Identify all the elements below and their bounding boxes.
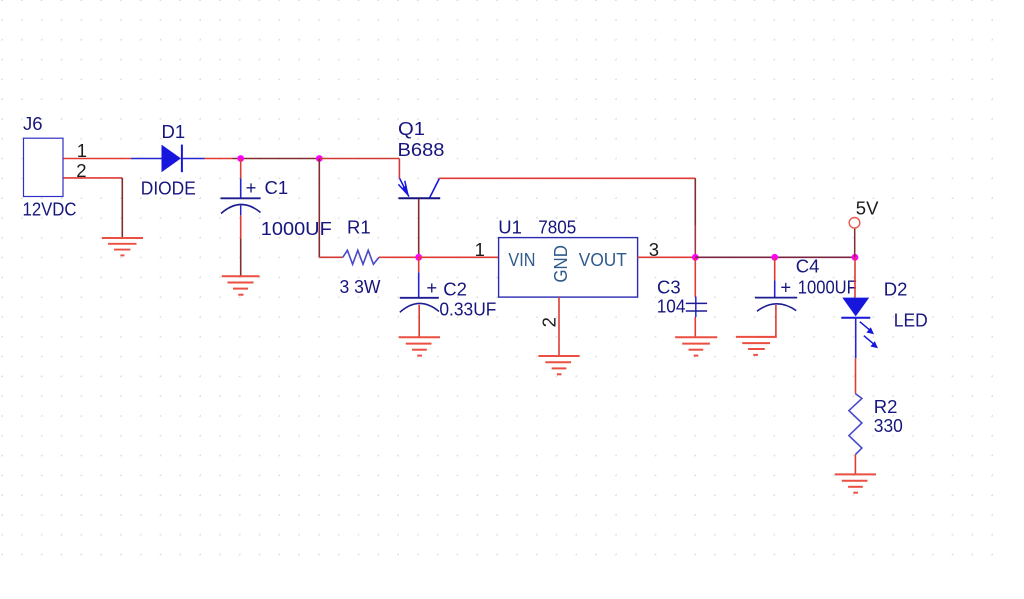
wire node C to U1 VIN	[419, 256, 499, 258]
connector J6	[24, 138, 64, 196]
wire C3 lower	[694, 317, 696, 337]
transistor Q1 base bar	[399, 197, 441, 199]
ground C4	[736, 337, 777, 355]
capacitor C1 bottom lead	[240, 206, 242, 216]
svg-text:0.33UF: 0.33UF	[439, 299, 496, 320]
capacitor C3 lead	[695, 297, 697, 318]
svg-text:Q1: Q1	[398, 118, 425, 139]
svg-text:VIN: VIN	[508, 249, 535, 270]
capacitor C2 top lead	[418, 272, 420, 297]
svg-text:1000UF: 1000UF	[261, 218, 332, 239]
wire U1 pin3	[638, 256, 696, 258]
svg-text:104: 104	[657, 296, 686, 317]
wire J6 pin2 horizontal	[64, 177, 123, 179]
diode D1 body	[162, 145, 181, 173]
wire R1 to node C	[379, 256, 419, 258]
wire D2 to R2	[855, 358, 857, 394]
svg-text:R2: R2	[874, 396, 898, 417]
ground C1	[222, 276, 260, 294]
wire node B down to R1	[318, 159, 320, 258]
svg-text:C2: C2	[443, 279, 467, 300]
capacitor C1 plate	[221, 197, 261, 199]
svg-text:1: 1	[77, 140, 87, 161]
wire C4 upper	[774, 257, 776, 280]
diode D1 cathode lead	[182, 158, 205, 160]
capacitor C3 plates	[686, 303, 707, 311]
diode D1 cathode bar	[181, 145, 183, 173]
wire C1 upper	[240, 159, 242, 179]
wire node A to node B	[233, 158, 320, 160]
ground J6	[102, 238, 143, 255]
svg-text:2: 2	[76, 160, 86, 181]
wire collector drop	[694, 178, 696, 225]
junction node A	[237, 155, 244, 162]
svg-text:1000UF: 1000UF	[798, 277, 857, 298]
svg-text:LED: LED	[894, 310, 928, 331]
svg-text:+: +	[780, 277, 791, 298]
capacitor C4 top lead	[774, 280, 776, 297]
ground C2	[399, 337, 440, 355]
diode D2 body	[842, 298, 869, 317]
wire C1 lower red	[240, 215, 242, 239]
junction node D	[692, 254, 699, 261]
wire C3 upper	[694, 257, 696, 297]
svg-text:VOUT: VOUT	[579, 249, 627, 270]
wire D1 to node A	[205, 158, 233, 160]
svg-text:U1: U1	[498, 217, 522, 238]
capacitor C1 arc	[221, 204, 261, 213]
diode D2 bottom lead	[855, 318, 857, 359]
junction node F	[852, 254, 859, 261]
diode D2 emission arrow 2	[864, 336, 878, 349]
regulator U1 body	[499, 238, 638, 298]
wire C1 lower maroon	[240, 239, 242, 276]
svg-text:330: 330	[874, 415, 903, 436]
wire Q1 emitter drop	[398, 159, 400, 179]
wire Q1 collector top	[439, 177, 696, 179]
svg-text:3: 3	[649, 239, 659, 260]
wire 5V lower	[854, 246, 856, 257]
diode D1 anode lead	[131, 158, 162, 160]
wire output net	[695, 256, 855, 258]
svg-text:C3: C3	[657, 277, 681, 298]
wire 5V upper	[854, 229, 856, 246]
power terminal 5V	[849, 218, 860, 229]
svg-text:+: +	[426, 277, 437, 298]
junction node C	[415, 254, 422, 261]
ground U1	[538, 356, 579, 374]
svg-text:DIODE: DIODE	[141, 178, 196, 199]
diode D2 cathode bar	[841, 317, 870, 319]
transistor Q1 emitter line	[400, 178, 409, 196]
svg-text:B688: B688	[398, 139, 445, 160]
svg-text:1: 1	[475, 239, 485, 260]
svg-text:7805: 7805	[538, 217, 576, 238]
svg-text:D2: D2	[884, 278, 908, 299]
capacitor C4 plate	[755, 297, 797, 299]
ground R2	[835, 474, 876, 492]
transistor Q1 collector line	[430, 178, 440, 197]
wire U1 pin2	[558, 297, 560, 356]
svg-text:R1: R1	[347, 217, 371, 238]
resistor R1	[343, 250, 379, 264]
capacitor C2 arc	[400, 303, 439, 312]
capacitor C4 arc	[757, 304, 796, 311]
wire Q1 base drop	[418, 199, 420, 257]
svg-text:3 3W: 3 3W	[340, 276, 382, 297]
wire to R1 left	[319, 256, 343, 258]
svg-text:+: +	[246, 177, 257, 198]
wire J6 pin1	[64, 158, 132, 160]
svg-text:J6: J6	[23, 113, 43, 134]
junction node E	[771, 254, 778, 261]
svg-text:C4: C4	[796, 256, 820, 277]
transistor Q1 emitter arrow	[398, 181, 408, 196]
wire D2 upper	[854, 257, 856, 297]
wire C2 lower	[418, 305, 420, 338]
wire R2 lower	[854, 455, 856, 475]
svg-text:D1: D1	[162, 121, 186, 142]
svg-text:5V: 5V	[856, 198, 879, 219]
diode D2 emission arrow 1	[860, 322, 874, 335]
resistor R2	[849, 394, 862, 455]
svg-text:2: 2	[538, 317, 559, 327]
ground C3	[675, 337, 717, 355]
wire node B to Q1	[319, 158, 399, 160]
junction node B	[316, 155, 323, 162]
svg-text:C1: C1	[265, 177, 289, 198]
svg-text:12VDC: 12VDC	[23, 199, 77, 220]
capacitor C2 plate	[400, 297, 439, 299]
svg-text:GND: GND	[550, 245, 571, 283]
capacitor C1 top lead	[240, 178, 242, 198]
wire C2 upper	[418, 257, 420, 272]
wire J6 pin2 vertical	[121, 178, 123, 238]
wire C4 lower	[756, 305, 776, 337]
